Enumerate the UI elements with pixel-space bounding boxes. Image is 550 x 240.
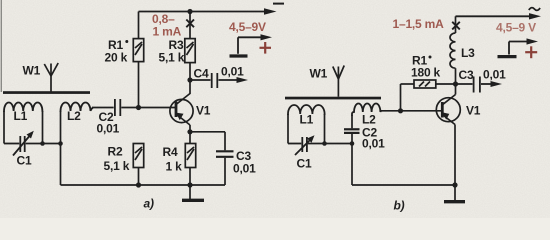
top rail a <box>139 11 273 13</box>
plus sign b <box>525 46 537 58</box>
svg-text:W1: W1 <box>310 67 328 81</box>
coil L1 <box>4 102 42 112</box>
coil L2 <box>61 103 94 113</box>
resistor R1 <box>133 12 143 108</box>
svg-text:0,01: 0,01 <box>362 137 385 151</box>
svg-text:C1: C1 <box>17 154 32 168</box>
svg-text:C4: C4 <box>194 67 209 81</box>
capacitor C4 <box>190 73 243 88</box>
svg-text:L1: L1 <box>14 109 28 123</box>
X break mark <box>186 20 194 28</box>
capacitor C2 <box>92 99 139 116</box>
wire L1b left side <box>287 114 289 144</box>
ground b <box>454 185 456 200</box>
svg-text:L1: L1 <box>300 113 314 127</box>
plus sign a <box>260 42 272 54</box>
svg-text:1 k: 1 k <box>166 160 183 174</box>
coil L1 (b) <box>288 105 325 115</box>
bottom rail b <box>352 184 455 186</box>
wire L1b right side <box>324 114 326 144</box>
node emitter <box>187 129 192 134</box>
transistor V1 (b) <box>436 84 460 185</box>
minus sign <box>273 3 284 5</box>
svg-text:5,1 k: 5,1 k <box>159 51 185 65</box>
wire L1 left side <box>3 111 5 144</box>
resistor R4 <box>185 132 195 185</box>
node rail R2 <box>136 182 141 187</box>
power symbol a <box>230 37 267 56</box>
svg-text:180 k: 180 k <box>411 66 441 80</box>
page edge line <box>0 0 2 92</box>
wire L2 to ground rail <box>60 111 62 185</box>
svg-text:4,5–9V: 4,5–9V <box>229 20 266 34</box>
svg-text:V1: V1 <box>466 104 481 118</box>
ferrite rod b <box>285 97 381 100</box>
node base b <box>398 108 403 113</box>
power symbol b <box>498 42 533 57</box>
antenna W1 (b) <box>333 66 344 97</box>
svg-text:a): a) <box>144 197 154 211</box>
svg-text:1 mA: 1 mA <box>153 25 182 39</box>
svg-text:0,01: 0,01 <box>221 65 244 79</box>
svg-text:C3: C3 <box>459 68 474 82</box>
coil L2 (b) <box>352 104 381 117</box>
resistor R2 <box>133 144 143 186</box>
node collector b <box>453 81 458 86</box>
svg-text:W1: W1 <box>23 64 41 78</box>
top rail b <box>456 15 537 17</box>
capacitor C1 (b, variable) <box>288 137 352 155</box>
svg-text:L2: L2 <box>67 109 81 123</box>
ferrite rod (antenna bar) <box>3 91 90 94</box>
wire L1 right side <box>42 111 44 144</box>
node L2 bottom <box>58 141 63 146</box>
inductor L3 <box>450 16 456 84</box>
resistor R3 <box>185 12 195 95</box>
node rail b <box>452 182 457 187</box>
transistor V1 (a) <box>170 94 193 132</box>
svg-text:1–1,5 mA: 1–1,5 mA <box>393 17 445 31</box>
svg-text:R4: R4 <box>163 145 178 159</box>
node rail R4 <box>187 182 192 187</box>
capacitor C1 (variable) <box>4 133 61 156</box>
node tank-right <box>40 141 45 146</box>
tilde mark <box>529 8 540 11</box>
svg-text:C1: C1 <box>297 157 312 171</box>
svg-text:0,01: 0,01 <box>233 162 256 176</box>
wire emitter to C3 <box>190 131 225 133</box>
svg-text:0,01: 0,01 <box>483 68 506 82</box>
wire base node <box>139 107 177 109</box>
svg-text:0,01: 0,01 <box>97 122 120 136</box>
ground a <box>189 185 191 199</box>
node rail R3 <box>187 9 192 14</box>
svg-text:V1: V1 <box>196 104 211 118</box>
capacitor C3 (b) <box>456 77 498 93</box>
bottom rail a <box>61 184 226 186</box>
svg-text:R2: R2 <box>108 145 123 159</box>
svg-text:5,1 k: 5,1 k <box>104 159 130 173</box>
resistor R1 (b) <box>401 80 456 111</box>
svg-text:L2: L2 <box>362 113 376 127</box>
wire L2b right to base <box>381 110 443 112</box>
node C4 tap <box>187 77 192 82</box>
antenna W1 <box>44 63 58 92</box>
capacitor C3 (a) <box>216 132 234 185</box>
node C2b junction <box>350 141 355 146</box>
node L1b right <box>322 141 327 146</box>
svg-text:L3: L3 <box>461 46 475 60</box>
svg-text:4,5–9 V: 4,5–9 V <box>496 21 536 35</box>
X break mark b <box>452 22 460 30</box>
node base <box>136 105 141 110</box>
capacitor C2 (b) <box>344 115 360 185</box>
svg-text:b): b) <box>394 199 405 213</box>
svg-text:20 k: 20 k <box>105 51 128 65</box>
